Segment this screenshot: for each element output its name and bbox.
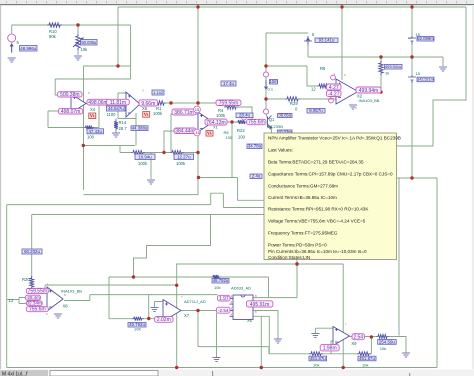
resistor fb 10k a (309, 352, 323, 356)
wire X9 out (350, 336, 377, 338)
resistor network 100k b (131, 151, 145, 155)
svg-text:X6: X6 (247, 318, 253, 323)
wire drop x399 (398, 178, 400, 336)
wire y146 network (83, 145, 135, 147)
wire rail drop x342 to U2 V+ (341, 7, 343, 80)
svg-text:Q1: Q1 (269, 117, 275, 122)
svg-text:10k: 10k (362, 363, 368, 368)
wire R1 to node (166, 102, 216, 104)
svg-text:100: 100 (238, 135, 246, 140)
wire loop x130 (130, 25, 132, 79)
svg-text:1100: 1100 (107, 112, 117, 117)
wire X7 -in (109, 318, 163, 320)
resistor out 10k (376, 335, 389, 339)
battery B1 15V (408, 36, 416, 44)
svg-text:500.38m: 500.38m (60, 92, 79, 98)
op-amp X1 (198, 112, 213, 132)
op-amp X5 (126, 92, 140, 117)
svg-text:-28.4m: -28.4m (26, 295, 40, 300)
svg-text:100k: 100k (138, 161, 148, 166)
svg-text:499.941u: 499.941u (385, 65, 401, 69)
wire y264 long (176, 263, 343, 265)
transistor Q1 (268, 116, 272, 129)
resistor 10k mult (211, 275, 221, 279)
ground mid bottom (213, 358, 221, 362)
svg-text:-2.54: -2.54 (218, 308, 229, 313)
wire VCC rail y57 (308, 56, 443, 58)
svg-text:100k: 100k (216, 113, 226, 118)
svg-text:M 4xl 1ul...f: M 4xl 1ul...f (2, 372, 28, 376)
wire R14 drop (115, 119, 117, 134)
wire X7 out (181, 310, 233, 312)
multiplier U3 AD633 (233, 295, 253, 320)
ground mid network (147, 180, 155, 184)
svg-text:254.59u: 254.59u (379, 339, 395, 344)
svg-text:Frequency Terms:FT=275.95MEG: Frequency Terms:FT=275.95MEG (268, 231, 338, 236)
ground below IS1 (8, 58, 16, 62)
wire rail drop x118 (117, 7, 119, 66)
svg-text:R8: R8 (320, 66, 326, 71)
wire stub y177 (199, 178, 265, 201)
wire fb line y354 (269, 353, 372, 355)
pink probe value labels (25, 84, 381, 352)
svg-text:451.87u: 451.87u (359, 356, 375, 361)
svg-text:10.94u: 10.94u (138, 155, 152, 160)
svg-text:Capacitance Terms:CPI=157.89p: Capacitance Terms:CPI=157.89p CMU=2.17p … (268, 172, 393, 177)
wire R8 stub (330, 85, 336, 87)
svg-text:36.85u: 36.85u (278, 113, 291, 118)
svg-text:-15: -15 (194, 130, 201, 135)
svg-text:28.4u: 28.4u (239, 113, 251, 118)
wire battery chain x412 (411, 7, 413, 178)
op-amp X8 INA103 (47, 287, 63, 311)
wire x343 column (342, 264, 344, 368)
svg-text:Beta Terms:BETADC=271.29 BETAA: Beta Terms:BETADC=271.29 BETAAC=264.35 (268, 160, 364, 165)
window top border (0, 4, 474, 5)
resistor RL 1k (379, 61, 383, 75)
svg-text:100k: 100k (176, 161, 186, 166)
svg-text:10k: 10k (313, 363, 319, 368)
svg-text:759.55m: 759.55m (28, 288, 47, 294)
svg-text:47.43u: 47.43u (88, 129, 102, 134)
svg-text:0.1: 0.1 (268, 87, 274, 92)
svg-text:X8: X8 (63, 304, 69, 309)
wire X8 fb y285 (45, 285, 177, 288)
probe circle U2 bottom (329, 98, 334, 103)
wire X8 out (64, 295, 218, 301)
svg-text:44.388u: 44.388u (132, 126, 148, 131)
junction on info box edge (295, 262, 298, 265)
svg-text:Condition:States:LIN: Condition:States:LIN (268, 255, 310, 260)
svg-text:26.7: 26.7 (119, 126, 128, 131)
svg-text:1k: 1k (385, 71, 389, 76)
wire collector loop top (266, 33, 308, 57)
svg-text:100k: 100k (153, 111, 163, 116)
wire gnd stub x216 (216, 313, 218, 357)
wire long bus L1 (84, 194, 199, 196)
wire rail drop x198 (197, 7, 199, 195)
probe circle U2 top (331, 75, 336, 80)
wire left edge drop (6, 205, 8, 368)
transistor info tooltip box (264, 133, 401, 260)
svg-text:Voltage Terms:VBE=755.6m VBC=-: Voltage Terms:VBE=755.6m VBC=-4.24 VCE=5 (268, 219, 366, 224)
wire stair A (134, 215, 211, 278)
wire AD633 W out (253, 297, 297, 299)
svg-text:49.792u: 49.792u (129, 322, 145, 327)
wire y152 network (120, 146, 198, 153)
probe circle base (242, 115, 247, 120)
svg-text:R29: R29 (290, 101, 298, 106)
svg-text:100: 100 (226, 135, 233, 140)
pin number digits (46, 72, 357, 327)
wire X4 -input feed (48, 111, 58, 128)
svg-text:17.4u: 17.4u (223, 81, 235, 86)
ground X9 (311, 334, 319, 338)
wire collector to R8 (266, 66, 317, 86)
wire fb resistor link (94, 105, 99, 128)
wire collector vertical (266, 33, 268, 118)
wire X4 out to X5 (86, 103, 126, 105)
wire X8 feed x31 (31, 215, 33, 291)
svg-text:15: 15 (416, 71, 421, 76)
ground VCC rail (439, 67, 447, 71)
wire X8 mid inputs (7, 298, 26, 304)
wire X5 out (140, 103, 152, 105)
svg-text:Pin Currents:Ib=36.85u Ic=10m: Pin Currents:Ib=36.85u Ic=10m Ie=-10.03m… (268, 249, 367, 254)
wire mult drive loop (109, 277, 211, 319)
wire long bus L2 (7, 193, 265, 207)
svg-text:Last Values:: Last Values: (268, 148, 293, 153)
resistor R4 (224, 105, 238, 109)
svg-text:11.81m: 11.81m (110, 100, 126, 106)
wire AD633 Z gnd (253, 311, 278, 339)
wire collector to R29 (266, 98, 285, 100)
wire long bus L3 (32, 214, 265, 216)
svg-text:495.91m: 495.91m (250, 302, 269, 308)
current source IS1 (8, 34, 16, 42)
wire gnd drop x443 (442, 57, 444, 66)
wire info right y146 (397, 145, 433, 147)
resistor feedback 100 (84, 126, 95, 130)
red chip markers (89, 112, 213, 137)
svg-text:Resistance Terms:RPI=951.98 RX: Resistance Terms:RPI=951.98 RX=0 RO=10.4… (268, 207, 369, 212)
wire source feed y25 (12, 24, 131, 26)
wire R4 branch (238, 107, 252, 122)
svg-text:92.099m: 92.099m (417, 36, 434, 41)
wire x176 drop (176, 264, 178, 368)
blue measurement labels (20, 36, 435, 361)
svg-text:1.97: 1.97 (219, 296, 229, 302)
resistor R20 (30, 276, 34, 289)
wire bottom rail (7, 367, 437, 369)
wire X9 out to gnd (389, 337, 406, 353)
ground U2 (349, 105, 357, 109)
svg-text:48.792u: 48.792u (213, 278, 229, 283)
svg-text:100: 100 (87, 135, 95, 140)
svg-text:34.78u: 34.78u (248, 144, 262, 149)
ground X7 (151, 308, 159, 312)
component reference labels (9, 29, 421, 368)
wire emitter column (296, 260, 298, 298)
svg-text:15: 15 (195, 107, 200, 112)
wire rail riser x261b (260, 316, 262, 368)
svg-text:X7: X7 (184, 313, 190, 318)
wire fb riser out (370, 337, 372, 354)
wire X4 +input loop (55, 79, 130, 95)
ground out X9 (402, 353, 410, 357)
wire right supply loop (397, 7, 466, 146)
wire gnd stub x151 (150, 153, 152, 180)
svg-text:2.54: 2.54 (353, 335, 363, 341)
svg-text:384.44m: 384.44m (175, 128, 194, 134)
window left border (0, 5, 1, 369)
wire X1 out to Q1 base (213, 121, 236, 123)
svg-text:12: 12 (311, 87, 316, 92)
wire R29 to U2 -in (300, 97, 336, 99)
ground below P1 (74, 56, 82, 60)
svg-text:451.87u: 451.87u (310, 356, 326, 361)
svg-text:2.02m: 2.02m (157, 317, 171, 323)
svg-text:498.07m: 498.07m (61, 109, 80, 115)
current arrow 0.1 (265, 80, 268, 89)
wire X1 -in riser (164, 131, 198, 153)
svg-text:50.036u: 50.036u (81, 40, 97, 45)
wire X9 +in gnd (315, 328, 333, 333)
resistor fb 10k b (357, 352, 371, 356)
wire X7 out drop (197, 311, 199, 347)
wire X5 feedback loop (118, 93, 136, 146)
supply bubble +15 (194, 106, 201, 113)
svg-text:1.98m: 1.98m (323, 346, 337, 352)
svg-text:10k: 10k (380, 346, 386, 351)
svg-text:R20: R20 (22, 277, 30, 282)
wire fb drop x84 (83, 66, 85, 190)
wire x147 riser (148, 295, 150, 319)
wire AD633 pin1 stub (230, 297, 234, 299)
wire fb riser X9 (331, 341, 333, 354)
voltage source VS1 5V (304, 36, 312, 45)
svg-text:10m: 10m (269, 79, 278, 84)
ground below R14 (112, 133, 120, 137)
wire U2 out (358, 91, 362, 93)
resistor R8 (317, 84, 330, 88)
window top strip (0, 0, 474, 4)
wire AD633 pin4 (253, 316, 269, 354)
resistor R22 (236, 120, 247, 124)
svg-text:4.27: 4.27 (329, 85, 339, 91)
wire node y66 horizontal (84, 65, 131, 67)
svg-text:9.66m: 9.66m (141, 101, 155, 107)
svg-text:INA103_BB: INA103_BB (359, 98, 380, 103)
svg-text:Current Terms:IB=36.85u IC=10m: Current Terms:IB=36.85u IC=10m (268, 195, 337, 200)
wire R 1k top (380, 57, 382, 92)
svg-text:12.27u: 12.27u (177, 155, 191, 160)
svg-text:498.06m: 498.06m (88, 100, 107, 106)
svg-text:X9: X9 (351, 341, 357, 346)
wire X7 +in gnd stub (155, 302, 164, 308)
wire pot drop (77, 25, 79, 55)
wire source stem (11, 25, 13, 53)
probe circle collector (263, 109, 268, 114)
ruler tick marks (6, 1, 467, 3)
wire top supply rail (118, 6, 466, 8)
supply bubble -15 (194, 129, 201, 136)
svg-text:60.202u: 60.202u (24, 249, 40, 254)
svg-text:755.6m: 755.6m (248, 120, 265, 126)
svg-text:755.6m: 755.6m (29, 307, 46, 313)
svg-text:Conductance Terms:GM=277.68m: Conductance Terms:GM=277.68m (268, 184, 338, 189)
svg-text:R14: R14 (119, 120, 127, 125)
svg-text:32.34m: 32.34m (26, 301, 42, 306)
wire y127 link (48, 127, 84, 129)
svg-text:44.547u: 44.547u (108, 106, 124, 111)
svg-text:NPN Amplifier Transistor Vceo=: NPN Amplifier Transistor Vceo=25V Ic=.1A… (268, 136, 401, 141)
ground AD633 (274, 339, 282, 343)
resistor R14 (114, 120, 118, 131)
svg-text:142.521m: 142.521m (417, 78, 434, 82)
op-amp X4 (71, 94, 86, 113)
wire y346 link (198, 347, 269, 354)
resistor 10k X7 (132, 317, 144, 321)
wire base net drop (231, 122, 233, 177)
wire X1 +in riser (171, 114, 198, 153)
svg-text:1.142: 1.142 (153, 90, 164, 95)
battery B2 15V (408, 75, 416, 83)
svg-text:Power Terms:PD=50m PS=0: Power Terms:PD=50m PS=0 (268, 243, 327, 248)
svg-text:48.996u: 48.996u (20, 46, 36, 51)
wire base R22 to Q1 (247, 121, 266, 123)
svg-text:10k: 10k (214, 285, 220, 290)
wire y277 right (221, 277, 269, 298)
resistor network 100k c (170, 151, 184, 155)
wire emitter (268, 126, 272, 134)
svg-text:764.13m: 764.13m (206, 120, 225, 126)
probe circle collector top (263, 72, 268, 77)
resistor R29 (285, 97, 300, 101)
svg-text:93.141u: 93.141u (319, 38, 335, 43)
ground X8 (54, 314, 62, 318)
svg-text:AD711J_AD: AD711J_AD (184, 299, 206, 304)
op-amp X9 (333, 327, 350, 346)
svg-text:2.4u: 2.4u (252, 174, 261, 179)
status bar tab (0, 370, 474, 376)
wire drop x437 (436, 178, 438, 368)
resistor R10 (47, 23, 62, 27)
resistor R1 (152, 101, 166, 105)
svg-text:AD633_AD: AD633_AD (231, 286, 251, 291)
potentiometer P1 (76, 34, 80, 50)
op-amp X7 AD711 (163, 300, 181, 322)
svg-text:X4: X4 (90, 107, 96, 112)
op-amp U2 INA103 (336, 79, 358, 104)
svg-text:12: 12 (9, 298, 14, 303)
svg-text:9.957u: 9.957u (309, 108, 323, 113)
svg-text:499.94m: 499.94m (359, 88, 378, 94)
svg-text:BC239B: BC239B (268, 124, 283, 129)
svg-text:10k: 10k (81, 47, 89, 52)
svg-text:R22: R22 (237, 128, 245, 133)
svg-text:80k: 80k (49, 34, 57, 39)
window right strip (472, 5, 474, 369)
wire info right y178 (397, 177, 437, 179)
svg-text:386.71m: 386.71m (174, 110, 193, 116)
svg-text:759.55m: 759.55m (219, 100, 238, 106)
